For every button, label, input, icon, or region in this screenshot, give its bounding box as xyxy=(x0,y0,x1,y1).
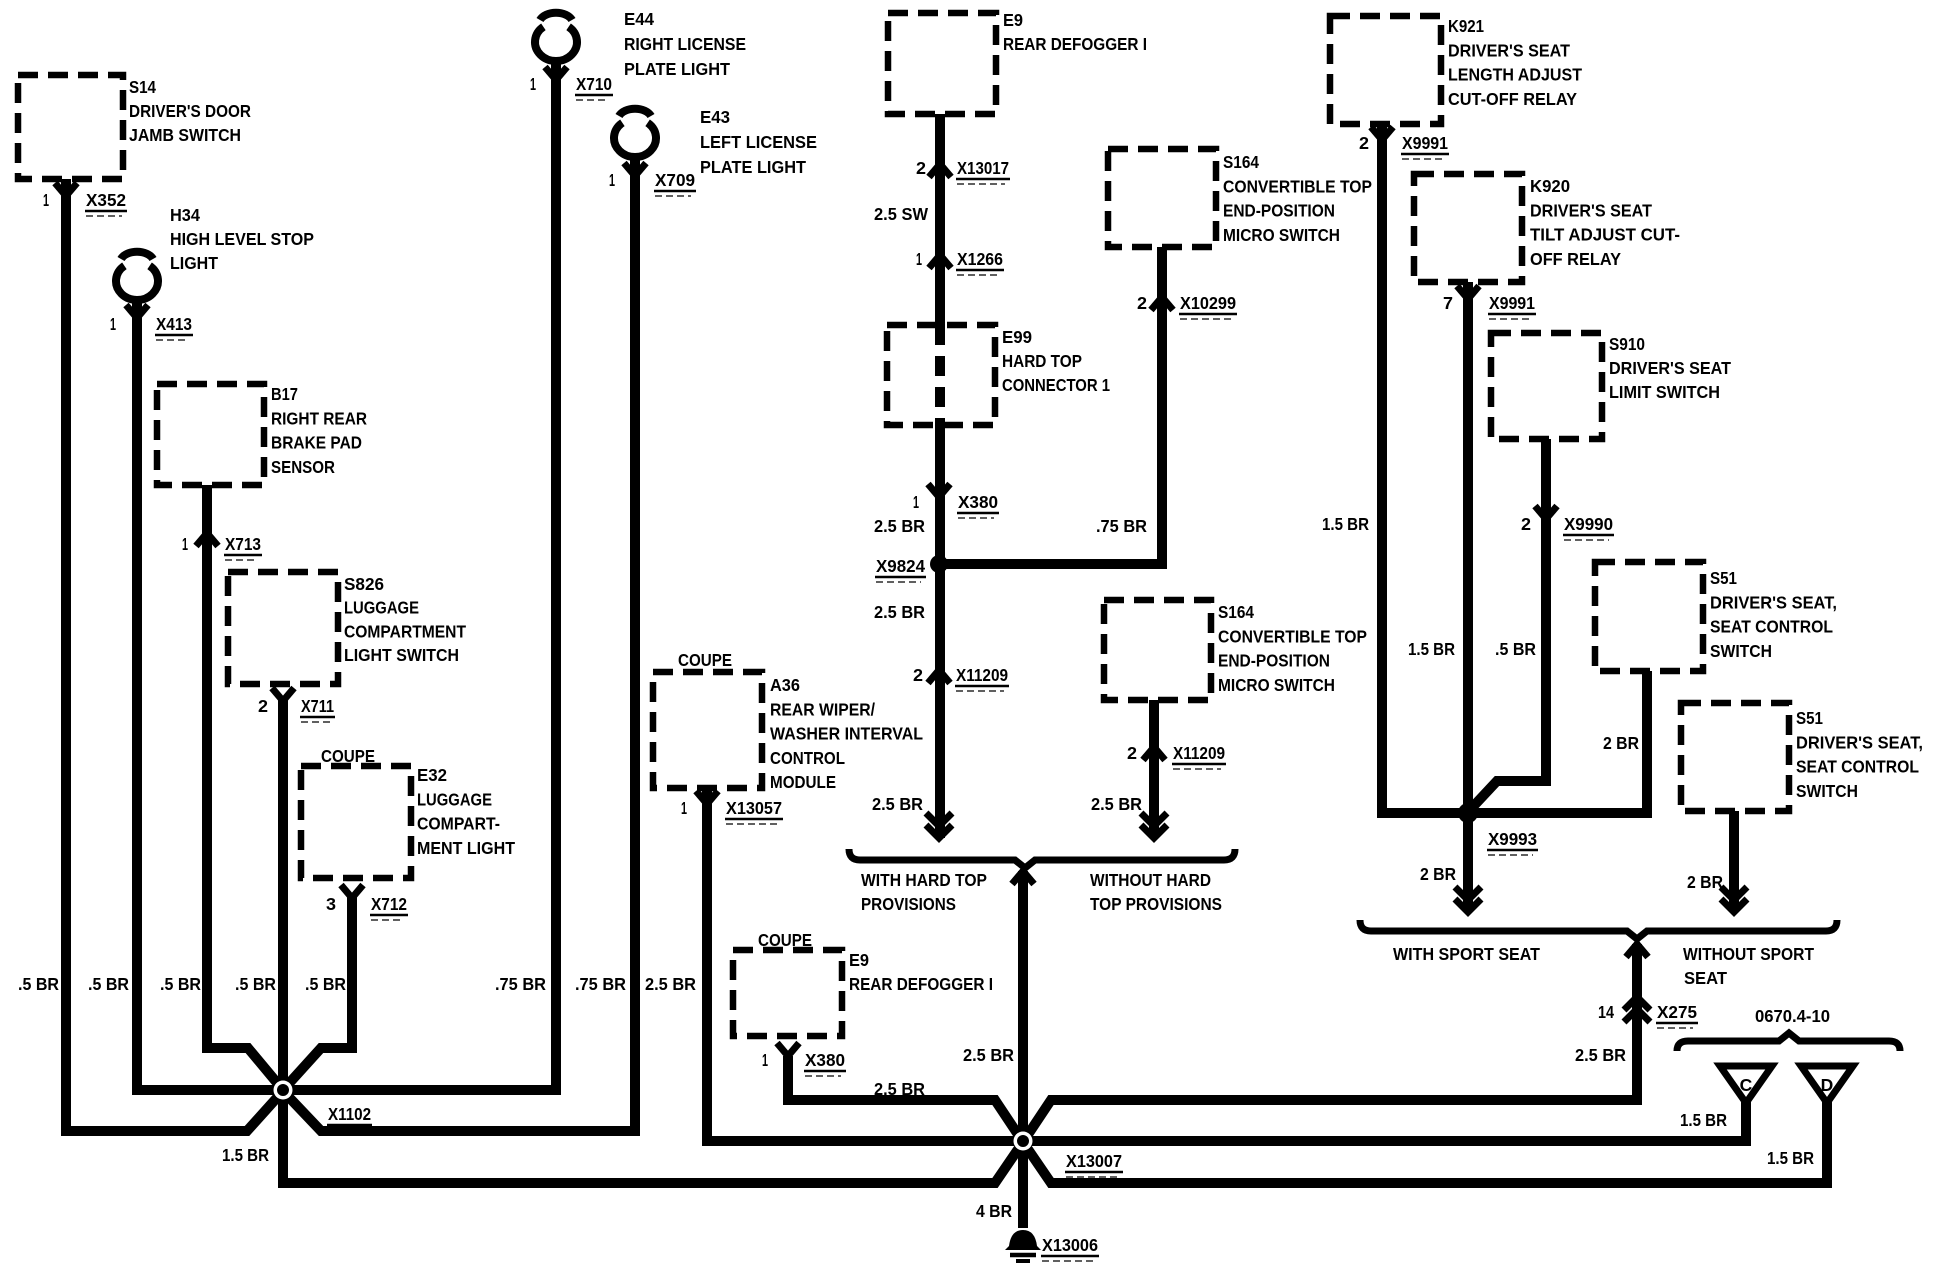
svg-text:COUPE: COUPE xyxy=(321,746,375,766)
svg-text:2: 2 xyxy=(916,158,926,178)
svg-text:14: 14 xyxy=(1598,1002,1614,1022)
svg-text:LIGHT SWITCH: LIGHT SWITCH xyxy=(344,645,459,665)
svg-text:7: 7 xyxy=(1443,293,1453,313)
svg-text:DRIVER'S SEAT,: DRIVER'S SEAT, xyxy=(1796,732,1923,752)
svg-text:COUPE: COUPE xyxy=(678,650,732,670)
svg-text:2: 2 xyxy=(258,696,268,716)
svg-text:SWITCH: SWITCH xyxy=(1796,781,1858,801)
svg-text:WITHOUT HARD: WITHOUT HARD xyxy=(1090,870,1211,890)
svg-text:S826: S826 xyxy=(344,574,384,594)
svg-text:2.5 SW: 2.5 SW xyxy=(874,204,928,224)
svg-text:LENGTH ADJUST: LENGTH ADJUST xyxy=(1448,65,1582,85)
svg-text:REAR DEFOGGER I: REAR DEFOGGER I xyxy=(1003,34,1147,54)
svg-text:.5 BR: .5 BR xyxy=(1495,639,1536,659)
svg-text:X9990: X9990 xyxy=(1564,514,1613,534)
svg-text:CONTROL: CONTROL xyxy=(770,748,845,768)
svg-text:X10299: X10299 xyxy=(1180,293,1236,313)
svg-text:1: 1 xyxy=(110,314,116,334)
svg-text:BRAKE PAD: BRAKE PAD xyxy=(271,433,362,453)
svg-text:E43: E43 xyxy=(700,107,730,127)
svg-text:X9991: X9991 xyxy=(1402,133,1448,153)
svg-text:2.5 BR: 2.5 BR xyxy=(874,1079,925,1099)
svg-text:1: 1 xyxy=(43,190,49,210)
svg-text:SWITCH: SWITCH xyxy=(1710,641,1772,661)
svg-text:X1102: X1102 xyxy=(328,1104,371,1124)
svg-text:2: 2 xyxy=(913,665,923,685)
svg-text:HIGH LEVEL STOP: HIGH LEVEL STOP xyxy=(170,229,314,249)
svg-text:LUGGAGE: LUGGAGE xyxy=(344,598,419,618)
svg-text:SEAT CONTROL: SEAT CONTROL xyxy=(1796,757,1919,777)
svg-text:END-POSITION: END-POSITION xyxy=(1223,201,1335,221)
svg-text:1: 1 xyxy=(916,249,922,269)
svg-text:JAMB SWITCH: JAMB SWITCH xyxy=(129,125,241,145)
svg-text:1: 1 xyxy=(762,1050,768,1070)
svg-text:0670.4-10: 0670.4-10 xyxy=(1755,1006,1830,1026)
svg-text:DRIVER'S SEAT,: DRIVER'S SEAT, xyxy=(1710,592,1837,612)
svg-text:X11209: X11209 xyxy=(956,665,1008,685)
svg-text:TOP PROVISIONS: TOP PROVISIONS xyxy=(1090,894,1222,914)
svg-text:X712: X712 xyxy=(371,894,407,914)
svg-text:E99: E99 xyxy=(1002,327,1032,347)
svg-text:X380: X380 xyxy=(805,1050,845,1070)
svg-text:RIGHT LICENSE: RIGHT LICENSE xyxy=(624,34,746,54)
svg-text:D: D xyxy=(1821,1075,1834,1095)
svg-text:2.5 BR: 2.5 BR xyxy=(874,516,925,536)
svg-text:CONVERTIBLE TOP: CONVERTIBLE TOP xyxy=(1223,176,1372,196)
svg-text:X13017: X13017 xyxy=(957,158,1009,178)
svg-text:X709: X709 xyxy=(655,170,695,190)
svg-text:1.5 BR: 1.5 BR xyxy=(1680,1110,1727,1130)
svg-text:A36: A36 xyxy=(770,675,800,695)
svg-text:REAR WIPER/: REAR WIPER/ xyxy=(770,699,875,719)
svg-text:LIMIT SWITCH: LIMIT SWITCH xyxy=(1609,382,1720,402)
svg-text:.75 BR: .75 BR xyxy=(575,974,626,994)
svg-text:WASHER INTERVAL: WASHER INTERVAL xyxy=(770,724,923,744)
svg-text:2 BR: 2 BR xyxy=(1687,872,1723,892)
svg-text:DRIVER'S SEAT: DRIVER'S SEAT xyxy=(1530,200,1652,220)
svg-text:.75 BR: .75 BR xyxy=(1096,516,1147,536)
svg-text:PLATE LIGHT: PLATE LIGHT xyxy=(700,157,806,177)
svg-text:E9: E9 xyxy=(1003,10,1023,30)
svg-text:2.5 BR: 2.5 BR xyxy=(1575,1045,1626,1065)
svg-text:MICRO SWITCH: MICRO SWITCH xyxy=(1218,675,1335,695)
svg-text:S910: S910 xyxy=(1609,334,1645,354)
svg-text:1.5 BR: 1.5 BR xyxy=(222,1145,269,1165)
svg-text:HARD TOP: HARD TOP xyxy=(1002,351,1082,371)
svg-text:2 BR: 2 BR xyxy=(1420,864,1456,884)
svg-text:S164: S164 xyxy=(1218,602,1254,622)
svg-text:.5 BR: .5 BR xyxy=(235,974,276,994)
svg-text:DRIVER'S SEAT: DRIVER'S SEAT xyxy=(1609,358,1731,378)
svg-text:TILT ADJUST CUT-: TILT ADJUST CUT- xyxy=(1530,225,1680,245)
svg-text:1: 1 xyxy=(681,798,687,818)
svg-text:SEAT: SEAT xyxy=(1684,968,1727,988)
svg-text:COUPE: COUPE xyxy=(758,930,812,950)
svg-text:PLATE LIGHT: PLATE LIGHT xyxy=(624,59,730,79)
svg-text:E32: E32 xyxy=(417,765,447,785)
svg-text:B17: B17 xyxy=(271,384,298,404)
svg-text:1: 1 xyxy=(609,170,615,190)
svg-text:C: C xyxy=(1740,1075,1753,1095)
svg-text:LIGHT: LIGHT xyxy=(170,253,218,273)
svg-text:END-POSITION: END-POSITION xyxy=(1218,651,1330,671)
svg-text:.5 BR: .5 BR xyxy=(18,974,59,994)
svg-text:X13006: X13006 xyxy=(1042,1235,1098,1255)
svg-text:2: 2 xyxy=(1521,514,1531,534)
svg-text:2: 2 xyxy=(1359,133,1369,153)
svg-text:X1266: X1266 xyxy=(957,249,1003,269)
svg-text:1.5 BR: 1.5 BR xyxy=(1322,514,1369,534)
svg-text:X710: X710 xyxy=(576,74,612,94)
svg-text:E44: E44 xyxy=(624,9,654,29)
svg-text:S164: S164 xyxy=(1223,152,1259,172)
svg-text:H34: H34 xyxy=(170,205,200,225)
svg-text:2.5 BR: 2.5 BR xyxy=(872,794,923,814)
svg-text:REAR DEFOGGER I: REAR DEFOGGER I xyxy=(849,974,993,994)
svg-text:DRIVER'S DOOR: DRIVER'S DOOR xyxy=(129,101,251,121)
svg-text:X713: X713 xyxy=(225,534,261,554)
svg-text:WITHOUT SPORT: WITHOUT SPORT xyxy=(1683,944,1814,964)
svg-text:OFF RELAY: OFF RELAY xyxy=(1530,249,1621,269)
svg-text:PROVISIONS: PROVISIONS xyxy=(861,894,956,914)
svg-text:X380: X380 xyxy=(958,492,998,512)
svg-text:MENT LIGHT: MENT LIGHT xyxy=(417,838,515,858)
svg-text:2: 2 xyxy=(1127,743,1137,763)
svg-text:3: 3 xyxy=(326,894,336,914)
svg-text:.75 BR: .75 BR xyxy=(495,974,546,994)
svg-text:SEAT CONTROL: SEAT CONTROL xyxy=(1710,617,1833,637)
svg-text:2.5 BR: 2.5 BR xyxy=(1091,794,1142,814)
svg-text:X275: X275 xyxy=(1657,1002,1697,1022)
svg-text:X9824: X9824 xyxy=(876,556,925,576)
svg-text:SENSOR: SENSOR xyxy=(271,457,335,477)
svg-text:K920: K920 xyxy=(1530,176,1570,196)
svg-text:X711: X711 xyxy=(301,696,334,716)
svg-text:2: 2 xyxy=(1137,293,1147,313)
svg-text:COMPARTMENT: COMPARTMENT xyxy=(344,621,466,641)
svg-text:2 BR: 2 BR xyxy=(1603,733,1639,753)
svg-text:CONNECTOR 1: CONNECTOR 1 xyxy=(1002,375,1110,395)
svg-text:E9: E9 xyxy=(849,950,869,970)
svg-text:CUT-OFF RELAY: CUT-OFF RELAY xyxy=(1448,89,1577,109)
svg-text:2.5 BR: 2.5 BR xyxy=(963,1045,1014,1065)
svg-text:4 BR: 4 BR xyxy=(976,1201,1012,1221)
svg-text:COMPART-: COMPART- xyxy=(417,814,500,834)
svg-text:.5 BR: .5 BR xyxy=(305,974,346,994)
svg-text:MICRO SWITCH: MICRO SWITCH xyxy=(1223,225,1340,245)
svg-text:X9993: X9993 xyxy=(1488,829,1537,849)
svg-text:2.5 BR: 2.5 BR xyxy=(874,602,925,622)
svg-text:2.5 BR: 2.5 BR xyxy=(645,974,696,994)
svg-text:S51: S51 xyxy=(1710,568,1737,588)
svg-text:1: 1 xyxy=(182,534,188,554)
svg-text:.5 BR: .5 BR xyxy=(160,974,201,994)
svg-text:.5 BR: .5 BR xyxy=(88,974,129,994)
svg-text:X11209: X11209 xyxy=(1173,743,1225,763)
svg-text:1.5 BR: 1.5 BR xyxy=(1767,1148,1814,1168)
svg-text:X352: X352 xyxy=(86,190,126,210)
svg-text:LUGGAGE: LUGGAGE xyxy=(417,789,492,809)
svg-text:K921: K921 xyxy=(1448,16,1484,36)
svg-text:1.5 BR: 1.5 BR xyxy=(1408,639,1455,659)
svg-text:RIGHT REAR: RIGHT REAR xyxy=(271,408,367,428)
svg-text:1: 1 xyxy=(530,74,536,94)
svg-text:X13007: X13007 xyxy=(1066,1151,1122,1171)
svg-text:LEFT LICENSE: LEFT LICENSE xyxy=(700,132,817,152)
svg-text:1: 1 xyxy=(913,492,919,512)
svg-text:X9991: X9991 xyxy=(1489,293,1535,313)
svg-text:CONVERTIBLE TOP: CONVERTIBLE TOP xyxy=(1218,626,1367,646)
svg-text:WITH SPORT SEAT: WITH SPORT SEAT xyxy=(1393,944,1540,964)
svg-text:S51: S51 xyxy=(1796,708,1823,728)
svg-text:DRIVER'S SEAT: DRIVER'S SEAT xyxy=(1448,40,1570,60)
svg-text:X413: X413 xyxy=(156,314,192,334)
svg-text:MODULE: MODULE xyxy=(770,772,836,792)
svg-text:X13057: X13057 xyxy=(726,798,782,818)
svg-text:WITH HARD TOP: WITH HARD TOP xyxy=(861,870,987,890)
svg-text:S14: S14 xyxy=(129,77,156,97)
